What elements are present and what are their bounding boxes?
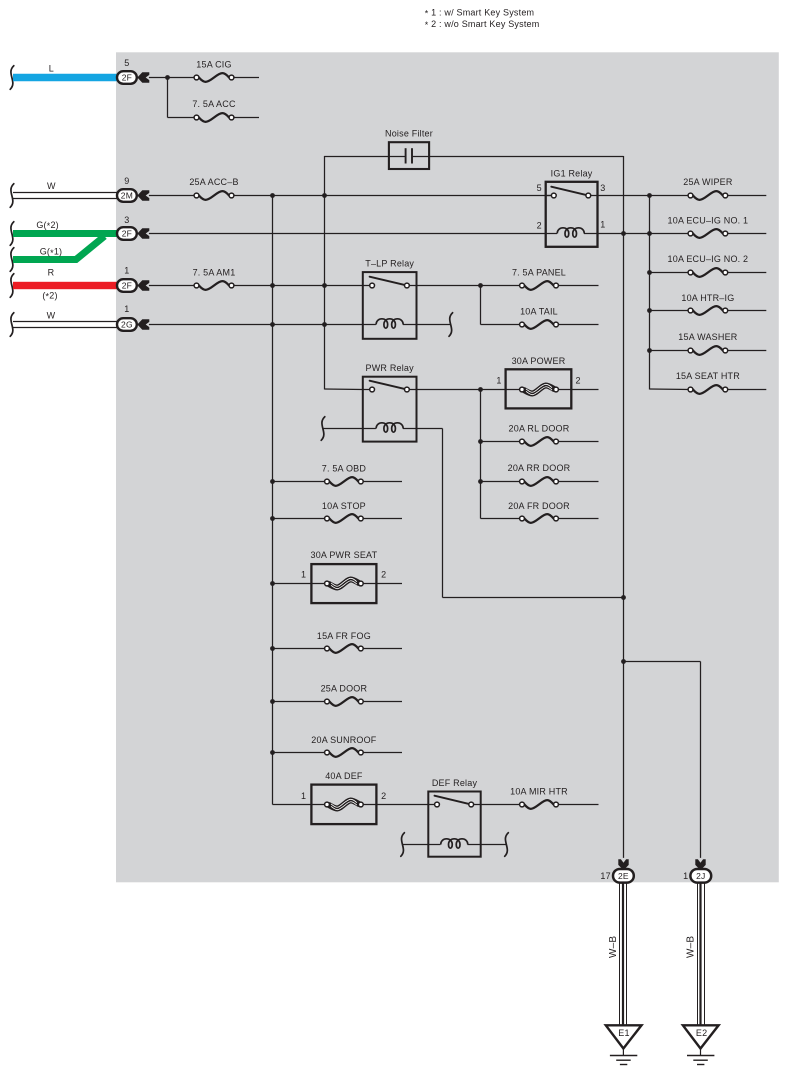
svg-text:10A HTR–IG: 10A HTR–IG bbox=[681, 293, 734, 303]
svg-text:*​ 2 : w/o Smart Key System: *​ 2 : w/o Smart Key System bbox=[425, 19, 540, 30]
svg-text:2G: 2G bbox=[121, 319, 133, 329]
svg-text:2: 2 bbox=[575, 376, 580, 386]
svg-text:25A ACC–B: 25A ACC–B bbox=[189, 177, 238, 187]
connector 2J pin 1 bbox=[683, 859, 711, 882]
svg-text:1: 1 bbox=[124, 266, 129, 276]
svg-text:15A CIG: 15A CIG bbox=[196, 60, 231, 70]
svg-text:15A FR FOG: 15A FR FOG bbox=[317, 631, 371, 641]
svg-text:10A ECU–IG NO. 2: 10A ECU–IG NO. 2 bbox=[668, 254, 749, 264]
fuse 15A SEAT HTR bbox=[676, 371, 766, 394]
svg-text:2: 2 bbox=[537, 220, 542, 230]
wire to 7.5A ACC bbox=[168, 117, 197, 119]
svg-text:(*​2): (*​2) bbox=[42, 290, 57, 301]
relay DEF bbox=[428, 778, 480, 857]
relay T-LP bbox=[363, 259, 417, 339]
svg-text:W: W bbox=[47, 310, 56, 320]
svg-text:G(*​2): G(*​2) bbox=[36, 220, 59, 231]
junction CIG/ACC bbox=[165, 75, 170, 117]
wire right fuse bank bus bbox=[647, 196, 690, 390]
wire AM1 to T-LP relay bbox=[234, 283, 370, 288]
wire W to connector 2M pin 9 bbox=[10, 181, 117, 207]
wire W-B to E1 bbox=[608, 883, 627, 1026]
wire 2F-5 to 15A CIG bbox=[149, 77, 197, 79]
wire 2F-1 to 7.5A AM1 bbox=[149, 285, 197, 287]
ground E2 bbox=[683, 1025, 719, 1064]
fuse 10A TAIL bbox=[520, 306, 599, 328]
noise filter U1 bbox=[385, 129, 433, 169]
fusible link 30A POWER bbox=[496, 356, 598, 408]
svg-text:15A WASHER: 15A WASHER bbox=[678, 332, 737, 342]
fuse 25A WIPER bbox=[650, 177, 767, 200]
wire vertical bus col1 bbox=[272, 196, 274, 805]
svg-text:40A DEF: 40A DEF bbox=[325, 771, 363, 781]
svg-text:T–LP Relay: T–LP Relay bbox=[365, 259, 414, 269]
fusible link 30A PWR SEAT bbox=[270, 550, 402, 603]
wire IG1 pin1 out bbox=[598, 231, 652, 236]
fuse 7. 5A AM1 bbox=[193, 267, 236, 290]
connector 2F pin 5 bbox=[117, 58, 149, 84]
wire L (blue) to connector 2F pin 5 bbox=[10, 64, 117, 90]
connector 2G pin 1 bbox=[117, 304, 149, 331]
svg-text:7. 5A OBD: 7. 5A OBD bbox=[322, 463, 367, 473]
wire 2J branch bbox=[621, 659, 700, 858]
svg-text:20A FR DOOR: 20A FR DOOR bbox=[508, 501, 570, 511]
connector 2F pin 1 bbox=[117, 266, 149, 292]
svg-text:2J: 2J bbox=[696, 871, 705, 881]
ground E1 bbox=[606, 1025, 642, 1064]
fuse 15A CIG bbox=[194, 60, 259, 82]
svg-text:2M: 2M bbox=[121, 190, 133, 200]
wire PWR coil out to bus bbox=[417, 429, 626, 600]
fuse 20A RL DOOR bbox=[481, 423, 599, 446]
svg-text:G(*​1): G(*​1) bbox=[40, 247, 63, 258]
wire vertical bus to 2E bbox=[623, 156, 625, 858]
connector 2M pin 9 bbox=[117, 176, 149, 202]
fuse 20A SUNROOF bbox=[270, 735, 402, 757]
svg-text:Noise Filter: Noise Filter bbox=[385, 129, 433, 139]
svg-text:3: 3 bbox=[124, 215, 129, 225]
svg-text:20A RL DOOR: 20A RL DOOR bbox=[509, 423, 570, 433]
svg-text:30A POWER: 30A POWER bbox=[512, 356, 566, 366]
svg-text:2F: 2F bbox=[122, 280, 132, 290]
svg-text:2: 2 bbox=[381, 791, 386, 801]
svg-text:15A SEAT HTR: 15A SEAT HTR bbox=[676, 371, 740, 381]
svg-text:E1: E1 bbox=[618, 1028, 629, 1038]
svg-text:*​ 1 : w/ Smart Key System: *​ 1 : w/ Smart Key System bbox=[425, 8, 535, 19]
wire POWER junction down to door fuses bbox=[478, 390, 483, 519]
junction ACC-B col1 bbox=[270, 193, 275, 198]
connector 2F pin 3 bbox=[117, 215, 149, 240]
fuse 25A ACC-B bbox=[189, 177, 238, 200]
fusible link 40A DEF bbox=[273, 771, 387, 824]
svg-text:2F: 2F bbox=[122, 228, 132, 238]
connector 2E pin 17 bbox=[600, 859, 633, 882]
wire 40A DEF to DEF relay bbox=[376, 804, 434, 806]
fuse 10A STOP bbox=[270, 501, 402, 523]
wire T-LP contact out to PANEL junction bbox=[417, 283, 523, 288]
fuse 20A RR DOOR bbox=[481, 463, 599, 486]
wire W-B to E2 bbox=[686, 883, 705, 1026]
svg-text:2F: 2F bbox=[122, 72, 132, 82]
svg-text:7. 5A PANEL: 7. 5A PANEL bbox=[512, 267, 566, 277]
fuse 20A FR DOOR bbox=[481, 501, 599, 523]
svg-text:17: 17 bbox=[600, 871, 610, 881]
svg-text:1: 1 bbox=[496, 376, 501, 386]
fuse 7. 5A OBD bbox=[270, 463, 402, 486]
wire R to connector 2F pin 1 bbox=[10, 268, 117, 302]
svg-text:25A DOOR: 25A DOOR bbox=[321, 683, 368, 693]
svg-text:20A RR DOOR: 20A RR DOOR bbox=[508, 463, 571, 473]
svg-text:1: 1 bbox=[301, 570, 306, 580]
svg-text:1: 1 bbox=[600, 219, 605, 229]
wire ACC-B to IG1 relay pin 5 bbox=[234, 195, 552, 197]
wire IG1 pin3 to fuse bank bbox=[598, 193, 652, 198]
junction ACC-B col2 bbox=[322, 193, 327, 198]
wire break to DEF coil bbox=[401, 833, 429, 857]
svg-text:30A PWR SEAT: 30A PWR SEAT bbox=[311, 550, 378, 560]
svg-text:IG1 Relay: IG1 Relay bbox=[551, 168, 593, 178]
wire PANEL junction down to TAIL bbox=[481, 286, 523, 325]
wire DEF coil out to break bbox=[481, 833, 509, 857]
svg-text:5: 5 bbox=[537, 183, 542, 193]
svg-text:25A WIPER: 25A WIPER bbox=[683, 177, 733, 187]
svg-text:L: L bbox=[49, 64, 54, 74]
fuse 25A DOOR bbox=[270, 683, 402, 706]
wire vertical bus col2 bbox=[325, 196, 363, 390]
svg-text:E2: E2 bbox=[696, 1028, 707, 1038]
wire PWR contact out bbox=[417, 387, 507, 392]
svg-text:7. 5A ACC: 7. 5A ACC bbox=[192, 99, 236, 109]
relay PWR bbox=[363, 363, 417, 442]
note *1 w/ Smart Key System bbox=[425, 8, 535, 19]
svg-text:1: 1 bbox=[301, 791, 306, 801]
fuse 10A ECU-IG NO. 1 bbox=[650, 215, 767, 237]
wire 2G-1 to T-LP coil bbox=[149, 322, 363, 327]
svg-text:20A SUNROOF: 20A SUNROOF bbox=[311, 735, 377, 745]
svg-text:1: 1 bbox=[124, 304, 129, 314]
wire G(*2) G(*1) to connector 2F pin 3 bbox=[10, 220, 117, 271]
wire 2F-3 to IG1 coil bbox=[149, 233, 546, 235]
svg-text:2E: 2E bbox=[618, 871, 629, 881]
svg-text:10A STOP: 10A STOP bbox=[322, 501, 366, 511]
svg-text:W–B: W–B bbox=[608, 936, 619, 958]
wire break to PWR coil bbox=[321, 417, 363, 441]
fuse 15A FR FOG bbox=[270, 631, 402, 653]
wire noise filter branch bbox=[325, 156, 624, 196]
svg-text:3: 3 bbox=[600, 183, 605, 193]
svg-text:W: W bbox=[47, 181, 56, 191]
fuse 7. 5A PANEL bbox=[512, 267, 599, 290]
fuse 7. 5A ACC bbox=[192, 99, 259, 122]
svg-text:1: 1 bbox=[683, 871, 688, 881]
svg-text:W–B: W–B bbox=[686, 936, 697, 958]
wire 2M-9 to 25A ACC-B bbox=[149, 195, 197, 197]
fuse 10A HTR-IG bbox=[650, 293, 767, 315]
fuse 15A WASHER bbox=[650, 332, 767, 355]
svg-text:10A ECU–IG NO. 1: 10A ECU–IG NO. 1 bbox=[668, 215, 749, 225]
wire T-LP coil out to break bbox=[417, 313, 453, 337]
svg-text:5: 5 bbox=[124, 58, 129, 68]
relay block background bbox=[116, 52, 779, 882]
svg-text:R: R bbox=[48, 268, 55, 278]
svg-text:10A MIR HTR: 10A MIR HTR bbox=[510, 786, 568, 796]
svg-text:DEF Relay: DEF Relay bbox=[432, 778, 478, 788]
fuse 10A ECU-IG NO. 2 bbox=[650, 254, 767, 277]
relay IG1 bbox=[537, 168, 606, 247]
svg-text:9: 9 bbox=[124, 176, 129, 186]
svg-text:7. 5A AM1: 7. 5A AM1 bbox=[193, 267, 236, 277]
svg-text:10A TAIL: 10A TAIL bbox=[520, 306, 558, 316]
wire W to connector 2G pin 1 bbox=[10, 310, 117, 336]
fuse 10A MIR HTR bbox=[481, 786, 599, 809]
svg-text:PWR Relay: PWR Relay bbox=[366, 363, 415, 373]
note *2 w/o Smart Key System bbox=[425, 19, 540, 30]
svg-text:2: 2 bbox=[381, 570, 386, 580]
